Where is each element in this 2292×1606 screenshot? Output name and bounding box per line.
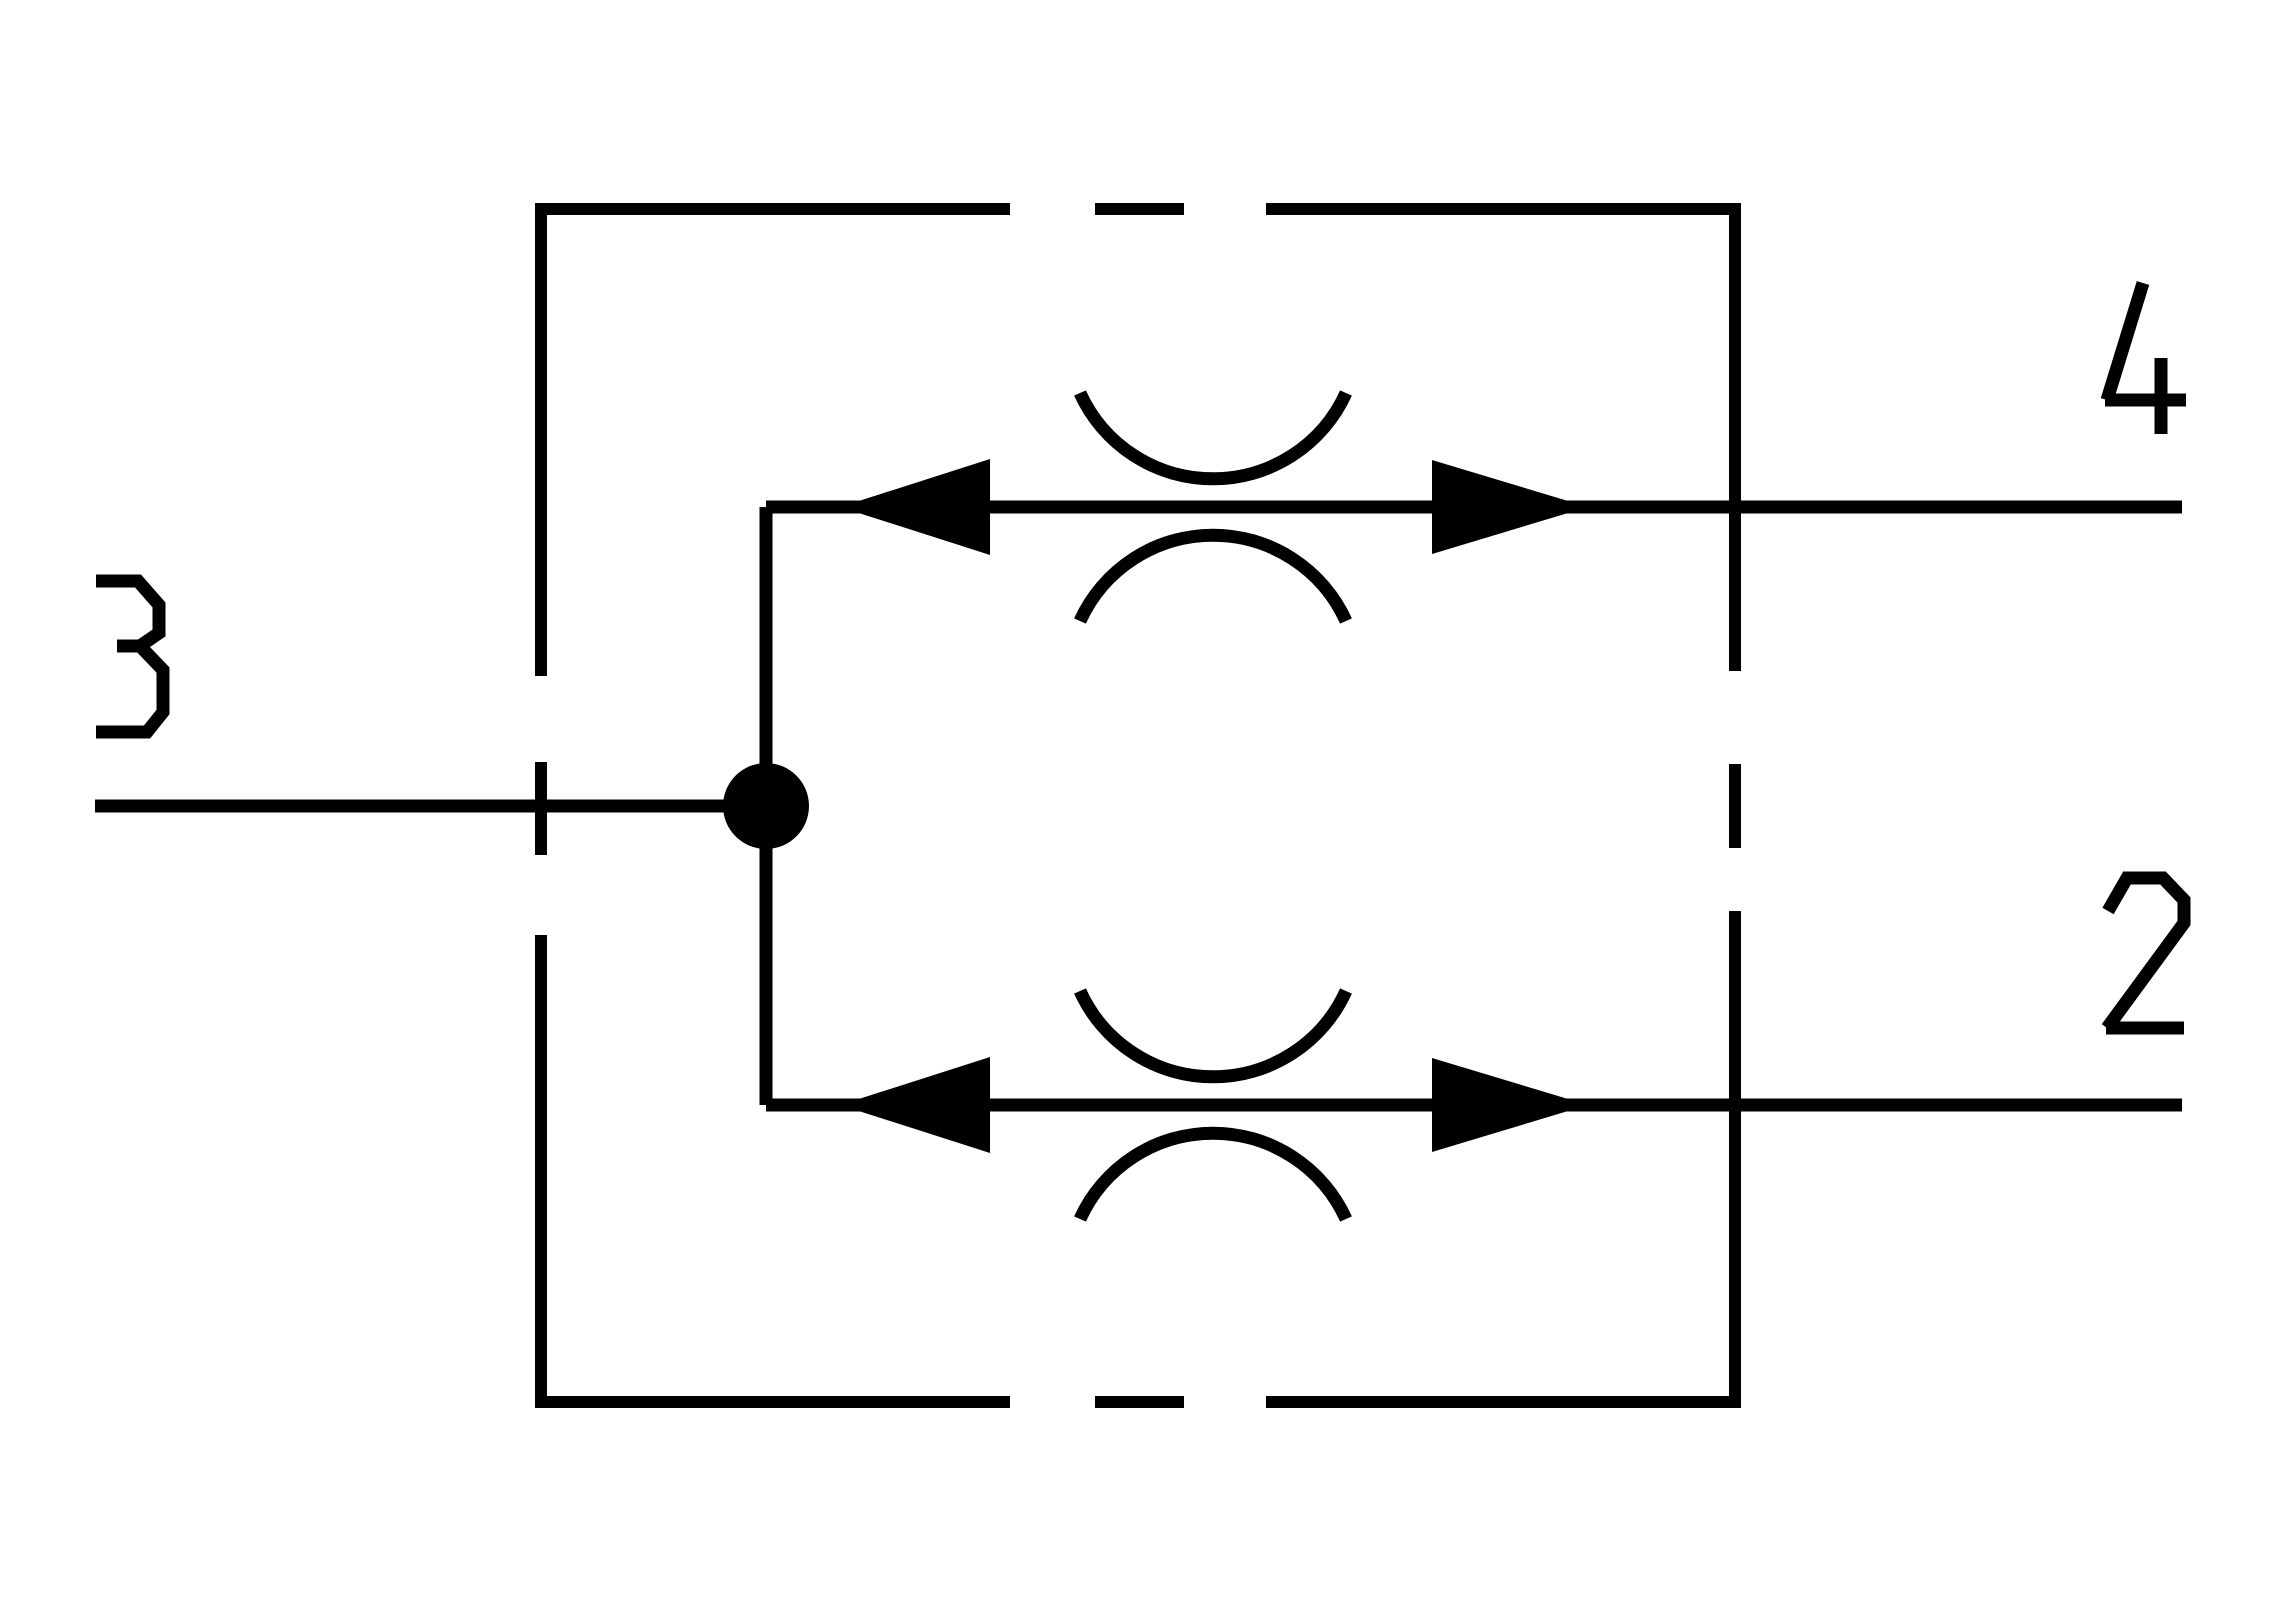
restrictor top upper arc	[1080, 393, 1346, 479]
restrictor top lower arc	[1080, 535, 1346, 621]
label port 2	[2107, 878, 2184, 1028]
arrow top line right	[1432, 460, 1588, 554]
label port 4	[2107, 283, 2143, 400]
envelope left edge dash 3	[535, 935, 547, 1408]
envelope right edge dash 2 (short)	[1729, 764, 1741, 848]
envelope left edge dash 1	[535, 203, 547, 676]
envelope bottom edge dash 3	[1266, 1396, 1741, 1408]
envelope left edge dash 2 (short)	[535, 762, 547, 855]
envelope right edge dash 1	[1729, 203, 1741, 671]
wire port 3 inlet line	[95, 800, 766, 813]
arrow top line left	[840, 459, 990, 555]
restrictor bottom lower arc	[1080, 1133, 1346, 1219]
envelope bottom edge dash 1	[535, 1396, 1010, 1408]
envelope bottom edge dash 2 (short)	[1095, 1396, 1184, 1408]
envelope top edge dash 3	[1266, 203, 1741, 215]
arrow bottom line left	[840, 1057, 990, 1153]
wire bottom flow line to port 2	[766, 1099, 2182, 1112]
node junction dot	[723, 763, 809, 849]
wire vertical riser	[760, 507, 773, 1105]
wire top flow line to port 4	[766, 501, 2182, 514]
envelope right edge dash 3	[1729, 911, 1741, 1408]
envelope top edge dash 1	[535, 203, 1010, 215]
arrow bottom line right	[1432, 1058, 1588, 1152]
restrictor bottom upper arc	[1080, 991, 1346, 1077]
envelope top edge dash 2 (short)	[1095, 203, 1184, 215]
label port 3	[96, 581, 163, 732]
